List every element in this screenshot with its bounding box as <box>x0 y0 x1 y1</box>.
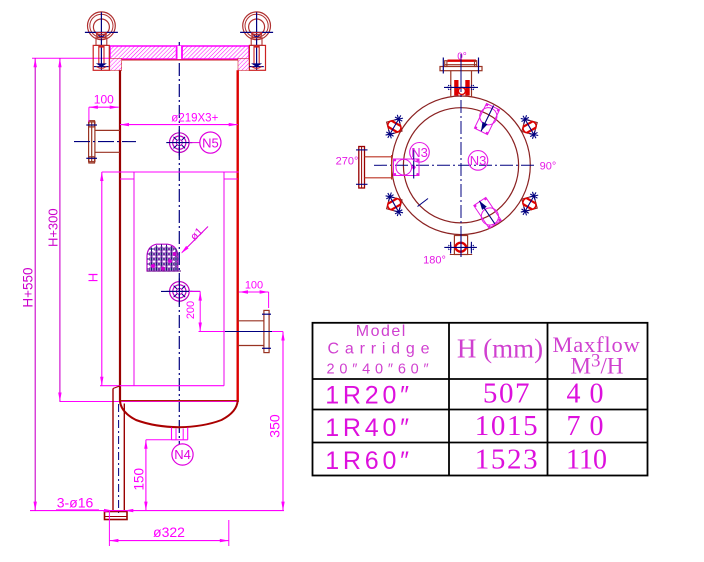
svg-text:1R40″: 1R40″ <box>325 414 413 442</box>
svg-text:150: 150 <box>131 468 146 491</box>
svg-text:110: 110 <box>566 445 607 476</box>
svg-text:507: 507 <box>483 378 531 410</box>
svg-text:N4: N4 <box>174 447 191 462</box>
svg-text:N3: N3 <box>411 145 428 160</box>
svg-text:100: 100 <box>245 279 263 291</box>
svg-text:Carridge: Carridge <box>328 341 436 358</box>
svg-text:N5: N5 <box>202 135 219 150</box>
svg-text:350: 350 <box>267 414 283 438</box>
svg-text:ø219X3+: ø219X3+ <box>171 112 218 124</box>
svg-text:N3: N3 <box>470 153 487 168</box>
svg-text:H+550: H+550 <box>21 267 36 307</box>
svg-text:1015: 1015 <box>475 410 539 442</box>
svg-text:0°: 0° <box>457 51 467 62</box>
svg-text:70: 70 <box>567 411 613 442</box>
svg-text:3-ø16: 3-ø16 <box>57 495 94 511</box>
svg-text:90°: 90° <box>540 160 557 172</box>
svg-text:Model: Model <box>356 323 407 340</box>
svg-text:H (mm): H (mm) <box>457 334 543 364</box>
svg-text:40: 40 <box>567 379 613 410</box>
svg-text:H: H <box>86 273 101 282</box>
svg-text:200: 200 <box>185 301 197 319</box>
svg-text:1523: 1523 <box>475 444 539 476</box>
svg-text:H+300: H+300 <box>46 208 61 247</box>
svg-text:270°: 270° <box>336 156 359 168</box>
svg-text:1R60″: 1R60″ <box>325 447 413 475</box>
svg-text:100: 100 <box>94 93 114 107</box>
svg-text:180°: 180° <box>423 255 446 267</box>
svg-text:1R20″: 1R20″ <box>325 382 413 410</box>
svg-text:ø322: ø322 <box>153 524 185 540</box>
svg-text:20″40″60″: 20″40″60″ <box>327 362 434 378</box>
